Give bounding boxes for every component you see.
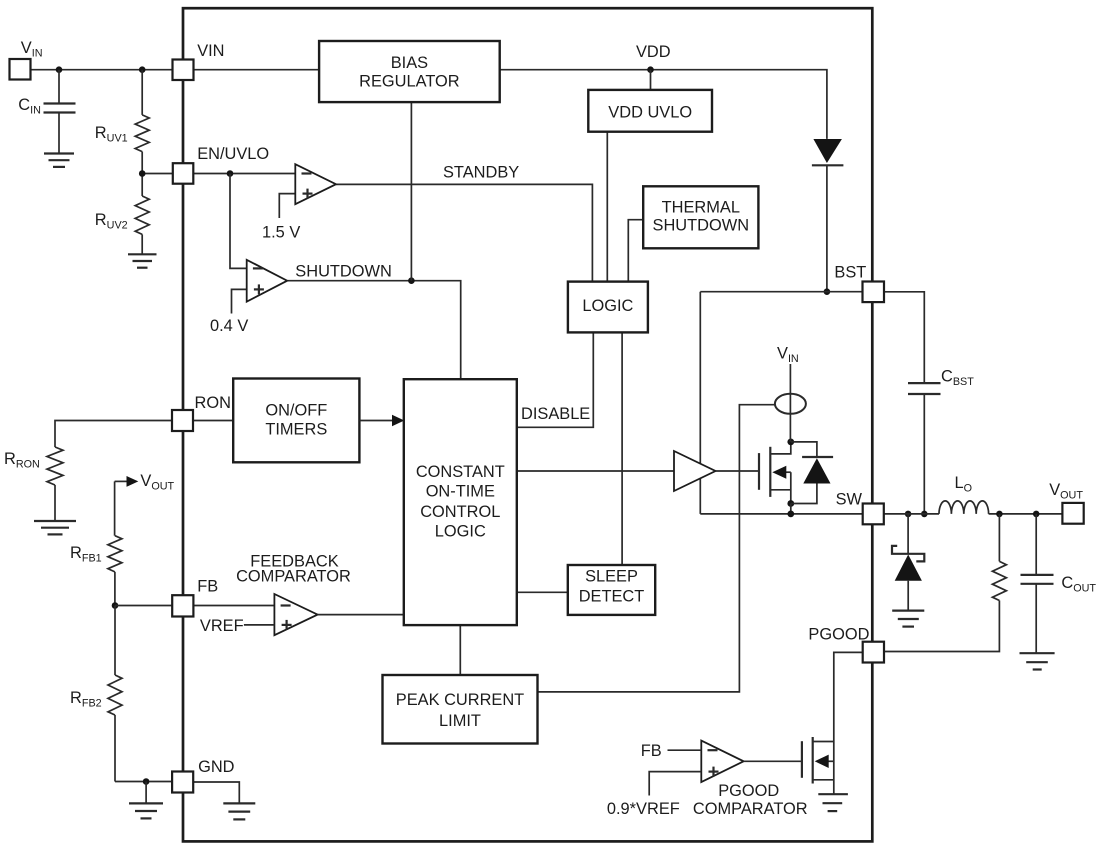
pin SW (836, 491, 884, 525)
svg-text:COMPARATOR: COMPARATOR (693, 800, 808, 818)
resistor RUV2 (95, 174, 149, 254)
wire VDD net (500, 70, 827, 139)
node VOUT terminal (1049, 481, 1084, 524)
svg-text:0.4 V: 0.4 V (210, 317, 248, 335)
wire peak current limit to VIN sense (538, 405, 775, 692)
capacitor CBST (908, 368, 974, 514)
svg-text:TIMERS: TIMERS (265, 421, 327, 439)
op-amp U3 feedback comparator (236, 553, 351, 636)
svg-text:LOGIC: LOGIC (435, 523, 486, 541)
pin GND (172, 758, 235, 793)
block THERMAL SHUTDOWN (643, 186, 758, 248)
wire EN/UVLO rail (142, 173, 295, 175)
pin RON (172, 394, 231, 431)
wire driver to HS gate (716, 470, 760, 472)
pin FB (172, 578, 218, 617)
wire VDD to VDD UVLO (650, 70, 652, 90)
wire UVLO comparator plus input 1.5V (279, 194, 295, 218)
wire VIN pin to bias regulator (194, 69, 320, 71)
label STANDBY (443, 164, 519, 182)
node shutdown/bias junction (408, 277, 415, 284)
svg-text:VOUT: VOUT (1049, 481, 1083, 502)
resistor RUV1 (95, 70, 149, 174)
wire driver supply rail left (699, 292, 701, 514)
svg-text:RUV1: RUV1 (95, 124, 128, 145)
wire RON pin to timers (194, 420, 234, 422)
svg-text:VREF: VREF (200, 617, 244, 635)
svg-text:VDD UVLO: VDD UVLO (608, 104, 692, 122)
pin PGOOD (808, 626, 884, 663)
svg-text:FB: FB (641, 742, 662, 760)
node SW rail junction (787, 511, 794, 518)
resistor RFB1 (70, 481, 122, 605)
diode D2 freewheeling schottky (892, 514, 924, 610)
svg-text:RON: RON (195, 394, 231, 412)
block ON/OFF TIMERS (233, 379, 359, 463)
svg-text:THERMAL: THERMAL (662, 199, 740, 217)
wire inductor to VOUT (989, 513, 1063, 515)
wire control logic to peak current limit (459, 625, 461, 675)
svg-text:LO: LO (955, 474, 973, 495)
node RUV divider junction (139, 170, 146, 177)
pin BST (834, 264, 884, 303)
svg-text:VOUT: VOUT (140, 472, 174, 493)
wire shutdown comparator plus input 0.4V (232, 289, 247, 313)
wire RON external rail (55, 421, 172, 448)
svg-text:RUV2: RUV2 (95, 211, 128, 232)
wire VREF to feedback comparator (200, 617, 275, 635)
wire BST to CBST (884, 292, 924, 383)
node RUV1 junction (139, 66, 146, 73)
ground below divider (129, 782, 163, 819)
resistor RFB2 (70, 606, 122, 782)
wire BST pin rail (700, 291, 862, 293)
wire logic to sleep detect (621, 332, 623, 565)
svg-text:RRON: RRON (4, 450, 40, 471)
wire SW internal rail (700, 513, 862, 515)
node VOUT feedback arrow (115, 472, 175, 493)
svg-text:LIMIT: LIMIT (439, 712, 481, 730)
wire 0.9*VREF to PGOOD comparator (607, 772, 701, 818)
svg-text:SLEEP: SLEEP (585, 568, 638, 586)
node Q1 drain junction (787, 439, 794, 446)
svg-text:EN/UVLO: EN/UVLO (197, 145, 269, 163)
label DISABLE (521, 405, 590, 423)
svg-text:VIN: VIN (197, 42, 224, 60)
diode Q1 body diode (791, 442, 833, 504)
svg-text:VIN: VIN (777, 345, 799, 366)
ground below RUV2 (128, 254, 157, 267)
block CONSTANT ON-TIME CONTROL LOGIC (404, 379, 517, 625)
wire PGOOD comparator to Q2 gate (744, 760, 802, 762)
wire control logic to sleep detect (517, 591, 568, 593)
wire control logic to gate driver (517, 470, 674, 472)
svg-text:RFB1: RFB1 (70, 544, 102, 565)
svg-text:ON/OFF: ON/OFF (265, 402, 327, 420)
svg-text:GND: GND (198, 758, 235, 776)
wire VIN input rail (31, 69, 173, 71)
wire SHUTDOWN net (287, 281, 461, 380)
node FB divider junction (112, 602, 119, 609)
svg-text:CONTROL: CONTROL (420, 503, 500, 521)
svg-text:SW: SW (836, 491, 863, 509)
node CIN junction (56, 66, 63, 73)
op-amp U5 PGOOD comparator (693, 741, 808, 818)
arrow timers to control logic (359, 415, 404, 426)
pin EN/UVLO (173, 145, 269, 184)
wire VDD UVLO to logic (606, 132, 608, 282)
svg-text:CIN: CIN (18, 96, 41, 117)
gate driver U2 (674, 451, 716, 491)
node VDD junction (647, 66, 654, 73)
node SW schottky junction (905, 511, 912, 518)
ground below Q2 (818, 794, 848, 811)
ground below D2 (892, 611, 924, 627)
node VIN terminal (10, 39, 43, 80)
wire Q1 source to SW rail (790, 504, 792, 514)
wire bias regulator to logic rail (410, 102, 412, 281)
wire GND pin to internal ground (193, 782, 239, 803)
node SW CBST junction (921, 511, 928, 518)
svg-text:SHUTDOWN: SHUTDOWN (653, 217, 750, 235)
wire FB to PGOOD comparator (641, 742, 702, 760)
svg-text:PGOOD: PGOOD (808, 626, 869, 644)
ground below COUT (1020, 653, 1055, 669)
svg-text:BIAS: BIAS (391, 54, 428, 72)
svg-text:BST: BST (834, 264, 866, 282)
block SLEEP DETECT (568, 565, 655, 615)
inductor LO (939, 474, 989, 514)
svg-text:CBST: CBST (941, 368, 974, 389)
svg-text:COUT: COUT (1061, 574, 1096, 595)
wire FB pin rail (115, 605, 274, 607)
svg-text:1.5 V: 1.5 V (262, 224, 300, 242)
wire PGOOD pin to Q2 drain (834, 652, 863, 741)
op-amp U1 UVLO comparator (262, 164, 336, 241)
wire thermal shutdown to logic (628, 220, 643, 282)
diode D1 VDD to BST (812, 139, 844, 292)
ground below RRON (34, 521, 76, 534)
svg-text:FB: FB (197, 578, 218, 596)
capacitor CIN (18, 70, 75, 153)
svg-text:COMPARATOR: COMPARATOR (236, 568, 351, 586)
svg-text:VIN: VIN (21, 39, 43, 60)
transistor Q1 high-side MOSFET (759, 442, 791, 504)
node EN comparator tap (227, 170, 234, 177)
ground below CIN (44, 154, 74, 167)
svg-text:SHUTDOWN: SHUTDOWN (295, 263, 392, 281)
resistor RRON (4, 447, 63, 521)
svg-text:DISABLE: DISABLE (521, 405, 590, 423)
svg-text:STANDBY: STANDBY (443, 164, 519, 182)
block LOGIC (568, 282, 648, 333)
svg-text:0.9*VREF: 0.9*VREF (607, 800, 680, 818)
wire feedback comparator to control logic (318, 614, 404, 616)
svg-text:RFB2: RFB2 (70, 689, 102, 710)
transistor Q2 PGOOD MOSFET (802, 737, 834, 794)
wire shutdown comparator minus input (230, 174, 247, 269)
op-amp U2 shutdown comparator (210, 260, 287, 335)
wire DISABLE net (517, 332, 594, 427)
capacitor COUT (1021, 514, 1097, 653)
svg-text:PGOOD: PGOOD (718, 782, 779, 800)
label VDD (636, 43, 671, 61)
ground at GND pin (223, 803, 255, 819)
svg-text:CONSTANT: CONSTANT (416, 463, 505, 481)
svg-text:VDD: VDD (636, 43, 671, 61)
svg-text:DETECT: DETECT (579, 588, 645, 606)
node LO output junction (996, 511, 1003, 518)
svg-text:LOGIC: LOGIC (582, 297, 633, 315)
node Q1 source junction (787, 500, 794, 507)
node COUT junction (1033, 511, 1040, 518)
block PEAK CURRENT LIMIT (383, 675, 538, 744)
svg-text:REGULATOR: REGULATOR (359, 73, 460, 91)
node BST diode junction (824, 288, 831, 295)
block VDD UVLO (588, 90, 712, 132)
node external ground junction (143, 778, 150, 785)
svg-text:ON-TIME: ON-TIME (426, 483, 495, 501)
wire divider to GND pin (115, 781, 172, 783)
wire SW pin to inductor (884, 513, 939, 515)
label SHUTDOWN (295, 263, 392, 281)
resistor R PGOOD pull-up (884, 514, 1006, 652)
svg-text:PEAK CURRENT: PEAK CURRENT (396, 691, 524, 709)
block BIAS REGULATOR (319, 41, 500, 102)
wire STANDBY net (336, 184, 592, 281)
IC boundary (183, 8, 872, 841)
current source VIN symbol (775, 345, 806, 442)
pin VIN (173, 42, 225, 80)
